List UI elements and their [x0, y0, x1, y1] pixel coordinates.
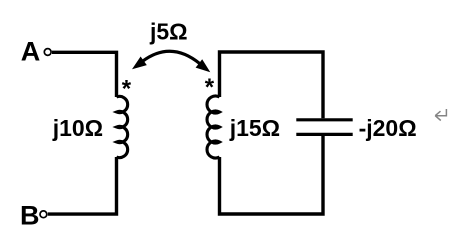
svg-text:j15Ω: j15Ω [229, 115, 280, 141]
svg-text:B: B [20, 201, 40, 230]
svg-text:j10Ω: j10Ω [52, 115, 103, 141]
svg-text:A: A [21, 37, 41, 67]
svg-text:*: * [122, 76, 132, 103]
svg-text:j5Ω: j5Ω [149, 19, 188, 45]
svg-text:*: * [205, 74, 215, 101]
svg-text:-j20Ω: -j20Ω [359, 115, 417, 141]
